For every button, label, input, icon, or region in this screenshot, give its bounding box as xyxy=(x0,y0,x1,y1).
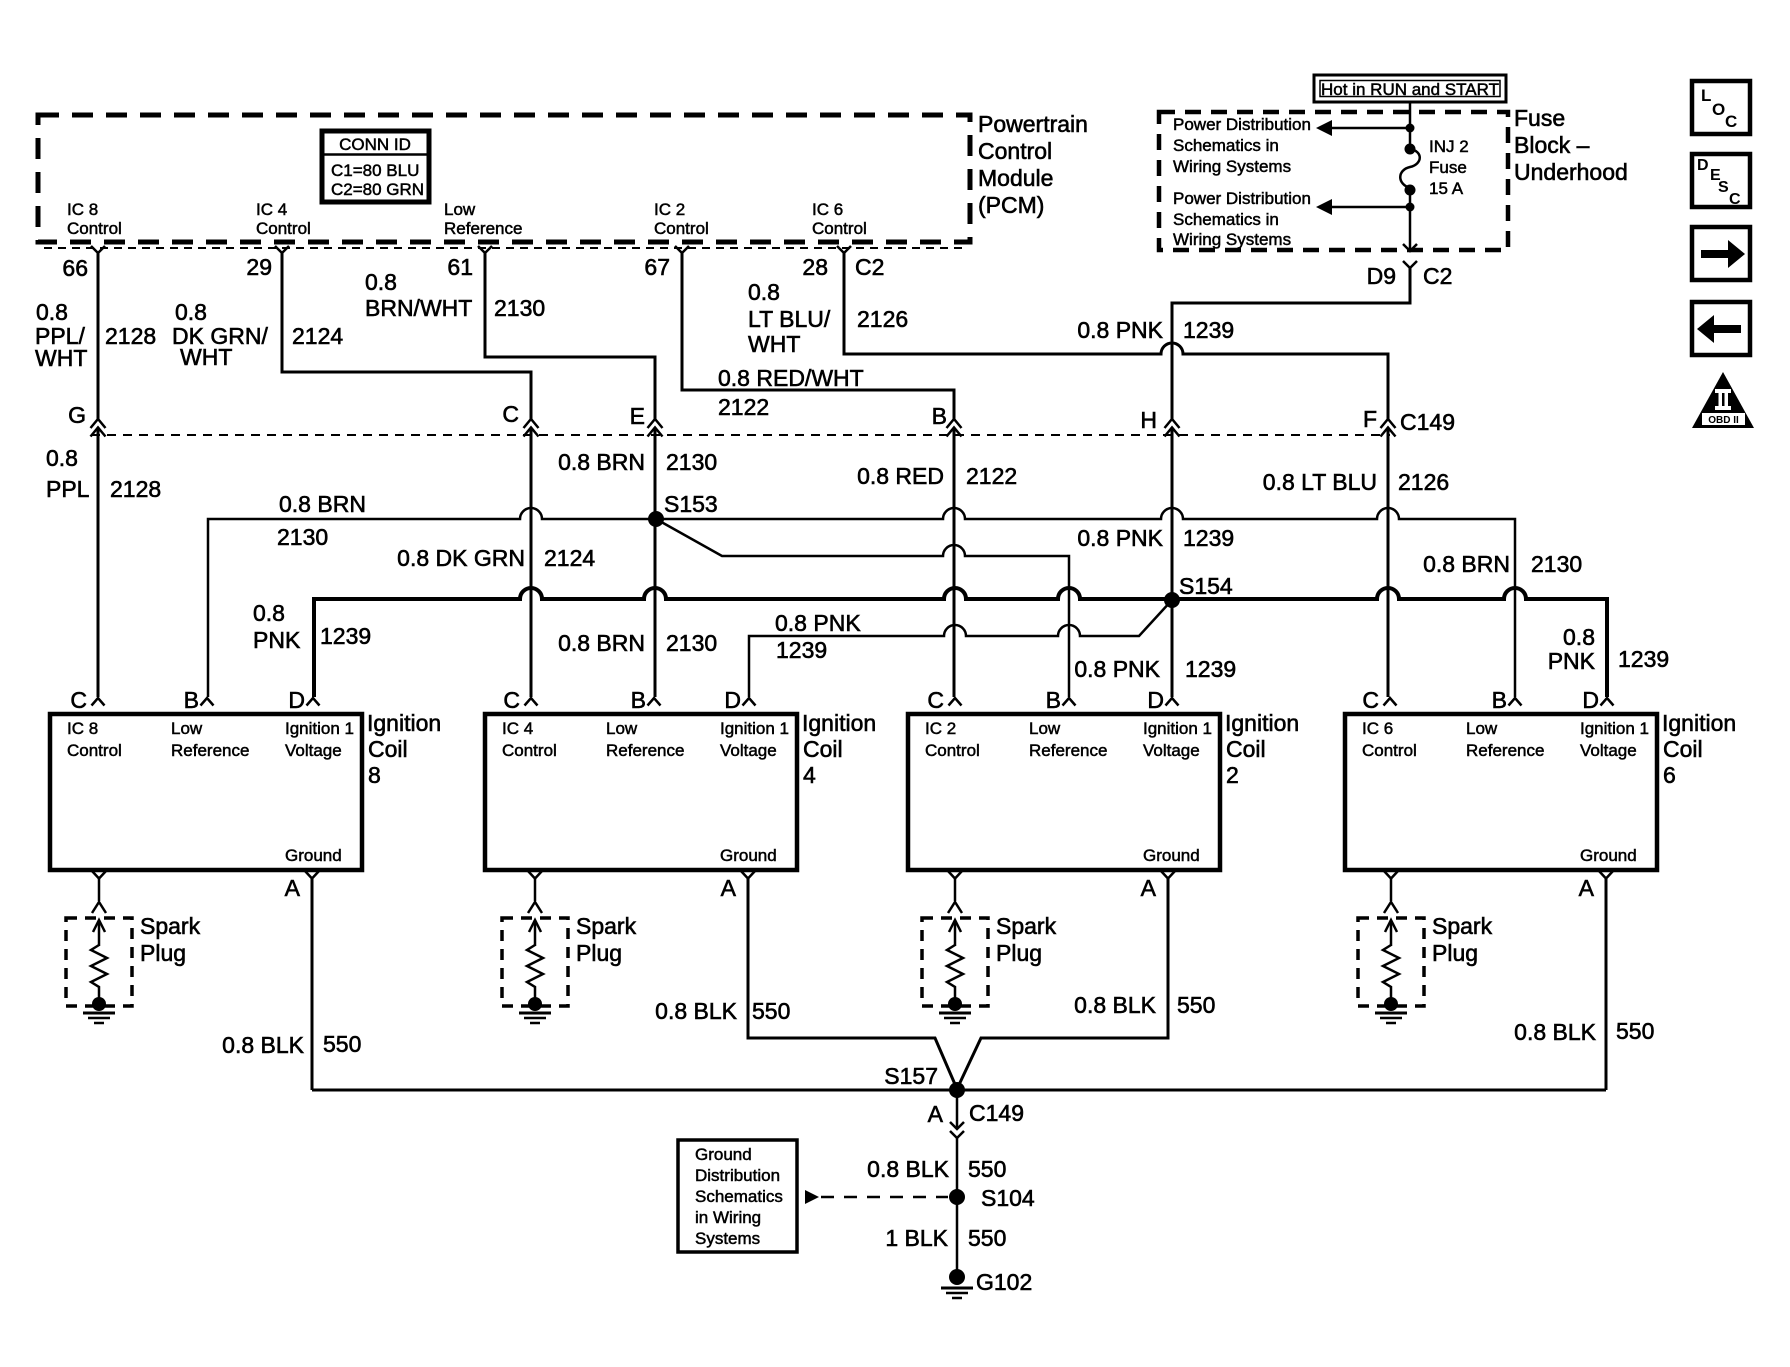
svg-text:Plug: Plug xyxy=(576,940,622,966)
svg-text:1239: 1239 xyxy=(320,623,371,649)
forward arrow icon xyxy=(1692,227,1750,280)
svg-text:Ground: Ground xyxy=(285,846,342,865)
svg-text:0.8 DK GRN: 0.8 DK GRN xyxy=(397,545,525,571)
coil 2 spark output pin xyxy=(948,871,962,913)
svg-text:0.8: 0.8 xyxy=(365,269,397,295)
svg-text:Module: Module xyxy=(978,165,1053,191)
PCM pin 61 xyxy=(447,246,492,280)
coil 6 spark output pin xyxy=(1384,871,1398,913)
svg-text:C: C xyxy=(502,401,519,427)
ignition coil 8 box xyxy=(50,714,362,870)
svg-text:550: 550 xyxy=(323,1031,361,1057)
svg-text:Control: Control xyxy=(978,138,1052,164)
svg-text:2130: 2130 xyxy=(494,295,545,321)
Ground Distribution reference box xyxy=(678,1140,797,1252)
ignition coil 2 label xyxy=(1225,710,1299,788)
PCM pin label IC 6 Control xyxy=(812,200,867,238)
fuse feed wire from Hot box xyxy=(1409,102,1412,149)
svg-text:Voltage: Voltage xyxy=(285,741,342,760)
ignition coil 2 box xyxy=(908,714,1220,870)
svg-text:A: A xyxy=(1579,875,1595,901)
svg-text:550: 550 xyxy=(1616,1018,1654,1044)
PCM pin 66 xyxy=(62,246,105,281)
PCM pin label IC 2 Control xyxy=(654,200,709,238)
svg-text:Schematics in: Schematics in xyxy=(1173,136,1279,155)
svg-text:C: C xyxy=(503,687,520,713)
svg-text:Coil: Coil xyxy=(803,736,843,762)
branch arrow to Power Distribution 1 xyxy=(1316,120,1415,136)
svg-text:Wiring Systems: Wiring Systems xyxy=(1173,230,1291,249)
label 1 BLK 550 xyxy=(885,1225,1006,1251)
PCM pin label IC 4 Control xyxy=(256,200,311,238)
svg-text:0.8 BLK: 0.8 BLK xyxy=(1514,1019,1596,1045)
svg-text:Low: Low xyxy=(444,200,476,219)
svg-text:B: B xyxy=(932,403,947,429)
svg-text:2130: 2130 xyxy=(666,449,717,475)
label 0.8 PPL/WHT 2128 xyxy=(35,299,156,371)
svg-text:Control: Control xyxy=(502,741,557,760)
Hot in RUN and START box xyxy=(1314,75,1506,102)
connector D9 / C2 chevrons xyxy=(1367,244,1453,289)
svg-text:in Wiring: in Wiring xyxy=(695,1208,761,1227)
label 0.8 RED 2122 xyxy=(857,463,1017,489)
svg-text:Ignition: Ignition xyxy=(1662,710,1736,736)
svg-text:Plug: Plug xyxy=(1432,940,1478,966)
svg-text:2126: 2126 xyxy=(1398,469,1449,495)
svg-text:1 BLK: 1 BLK xyxy=(885,1225,948,1251)
svg-text:C149: C149 xyxy=(969,1100,1024,1126)
coil 4 pin C xyxy=(503,687,537,713)
coil 8 pin D xyxy=(288,687,319,713)
svg-text:29: 29 xyxy=(246,254,272,280)
svg-text:L: L xyxy=(1701,86,1711,105)
svg-text:C: C xyxy=(1725,112,1737,131)
svg-text:550: 550 xyxy=(752,998,790,1024)
wire BLK 550 coil2 A into S157 xyxy=(957,878,1168,1089)
INJ 2 Fuse 15 A label xyxy=(1429,137,1469,198)
coil 2 pin B xyxy=(1046,687,1076,713)
wire BLK 550 S157 down through C149 xyxy=(956,1090,959,1197)
svg-text:Spark: Spark xyxy=(1432,913,1493,939)
splice S153 xyxy=(648,491,718,527)
svg-text:Coil: Coil xyxy=(1663,736,1703,762)
svg-text:IC 2: IC 2 xyxy=(925,719,956,738)
svg-text:Systems: Systems xyxy=(695,1229,760,1248)
svg-text:0.8 BRN: 0.8 BRN xyxy=(1423,551,1510,577)
PCM title xyxy=(978,111,1088,218)
svg-text:S154: S154 xyxy=(1179,573,1233,599)
svg-text:0.8 BRN: 0.8 BRN xyxy=(558,449,645,475)
svg-text:Ignition 1: Ignition 1 xyxy=(720,719,789,738)
svg-text:Ground: Ground xyxy=(695,1145,752,1164)
svg-text:Power Distribution: Power Distribution xyxy=(1173,189,1311,208)
svg-text:D: D xyxy=(1582,687,1599,713)
svg-text:C2=80 GRN: C2=80 GRN xyxy=(331,180,424,199)
svg-text:Control: Control xyxy=(925,741,980,760)
svg-text:Voltage: Voltage xyxy=(1580,741,1637,760)
spark plug 4 xyxy=(502,918,568,1023)
svg-text:WHT: WHT xyxy=(180,344,232,370)
svg-text:D: D xyxy=(1147,687,1164,713)
connector C149 dashed line xyxy=(91,434,1390,436)
back arrow icon xyxy=(1692,302,1750,355)
svg-text:Ignition: Ignition xyxy=(802,710,876,736)
spark plug 2 label xyxy=(996,913,1057,966)
svg-text:IC 6: IC 6 xyxy=(812,200,843,219)
C149 pin H xyxy=(1140,407,1179,437)
Fuse Block dashed box xyxy=(1159,112,1508,250)
coil 8 ground pin A xyxy=(285,871,319,901)
svg-text:0.8 BRN: 0.8 BRN xyxy=(558,630,645,656)
svg-text:28: 28 xyxy=(802,254,828,280)
svg-text:4: 4 xyxy=(803,762,816,788)
connector dashed line under PCM xyxy=(44,247,966,249)
svg-text:S157: S157 xyxy=(884,1063,938,1089)
svg-text:Voltage: Voltage xyxy=(1143,741,1200,760)
splice S104 xyxy=(949,1185,1035,1211)
svg-text:0.8: 0.8 xyxy=(175,299,207,325)
svg-text:IC 4: IC 4 xyxy=(502,719,533,738)
svg-text:2122: 2122 xyxy=(718,394,769,420)
svg-text:Low: Low xyxy=(606,719,638,738)
svg-text:B: B xyxy=(631,687,646,713)
coil 2 pin D xyxy=(1147,687,1178,713)
svg-text:IC 2: IC 2 xyxy=(654,200,685,219)
C149 pin G xyxy=(68,402,105,437)
svg-text:2124: 2124 xyxy=(544,545,595,571)
svg-text:Low: Low xyxy=(171,719,203,738)
dashed reference wire to S104 xyxy=(805,1190,948,1204)
svg-text:2130: 2130 xyxy=(1531,551,1582,577)
fuse F16 INJ 2 element xyxy=(1400,144,1420,196)
svg-text:Ignition 1: Ignition 1 xyxy=(285,719,354,738)
svg-text:Reference: Reference xyxy=(606,741,684,760)
svg-text:A: A xyxy=(928,1101,944,1127)
svg-text:Ground: Ground xyxy=(720,846,777,865)
svg-text:Wiring Systems: Wiring Systems xyxy=(1173,157,1291,176)
C149 pin C xyxy=(502,401,538,437)
label 0.8 LT BLU/WHT 2126 xyxy=(748,279,908,357)
svg-text:Ignition 1: Ignition 1 xyxy=(1580,719,1649,738)
svg-text:2128: 2128 xyxy=(110,476,161,502)
DESC icon xyxy=(1692,154,1750,208)
label 0.8 BLK 550 (below C149) xyxy=(867,1156,1006,1182)
svg-text:Coil: Coil xyxy=(1226,736,1266,762)
coil 2 ground pin A xyxy=(1141,871,1175,901)
svg-text:0.8: 0.8 xyxy=(748,279,780,305)
svg-text:WHT: WHT xyxy=(35,345,87,371)
wire LT BLU/WHT 2126 pin 28 to F, hops H xyxy=(844,253,1388,697)
svg-text:2126: 2126 xyxy=(857,306,908,332)
svg-text:IC 8: IC 8 xyxy=(67,200,98,219)
svg-text:C1=80 BLU: C1=80 BLU xyxy=(331,161,419,180)
PCM pin 29 xyxy=(246,246,289,280)
coil 6 ground pin A xyxy=(1579,871,1613,901)
svg-text:66: 66 xyxy=(62,255,88,281)
svg-text:0.8 PNK: 0.8 PNK xyxy=(1077,525,1163,551)
PCM dashed box xyxy=(38,115,970,242)
svg-text:1239: 1239 xyxy=(1185,656,1236,682)
spark plug 4 label xyxy=(576,913,637,966)
svg-text:S104: S104 xyxy=(981,1185,1035,1211)
svg-text:0.8 BLK: 0.8 BLK xyxy=(222,1032,304,1058)
svg-text:O: O xyxy=(1712,100,1725,119)
svg-text:550: 550 xyxy=(1177,992,1215,1018)
svg-text:E: E xyxy=(630,403,645,429)
svg-text:INJ 2: INJ 2 xyxy=(1429,137,1469,156)
svg-text:PPL: PPL xyxy=(46,476,90,502)
svg-text:0.8 BRN: 0.8 BRN xyxy=(279,491,366,517)
svg-text:Schematics: Schematics xyxy=(695,1187,783,1206)
label 0.8 PNK 1239 (coil8 D) xyxy=(253,600,371,653)
svg-text:(PCM): (PCM) xyxy=(978,192,1044,218)
label 0.8 RED/WHT 2122 xyxy=(718,365,864,420)
svg-text:0.8: 0.8 xyxy=(253,600,285,626)
svg-text:Reference: Reference xyxy=(1466,741,1544,760)
svg-text:WHT: WHT xyxy=(748,331,800,357)
Fuse Block - Underhood label xyxy=(1514,105,1628,185)
svg-text:1239: 1239 xyxy=(776,637,827,663)
svg-text:8: 8 xyxy=(368,762,381,788)
svg-text:Ignition: Ignition xyxy=(1225,710,1299,736)
svg-text:Spark: Spark xyxy=(576,913,637,939)
svg-text:C: C xyxy=(1729,191,1741,208)
coil 2 pin C xyxy=(927,687,961,713)
ground bus wire into S157 xyxy=(312,1089,1606,1092)
svg-text:Ground: Ground xyxy=(1143,846,1200,865)
wire BRN/WHT 2130 pin 61 to E xyxy=(485,253,655,519)
OBD II icon xyxy=(1692,372,1754,428)
svg-text:CONN ID: CONN ID xyxy=(339,135,411,154)
wire PPL/WHT 2128 pin 66 to G xyxy=(97,253,100,697)
svg-text:Ignition: Ignition xyxy=(367,710,441,736)
wire BLK 550 coil8 A to S157 bus xyxy=(311,878,314,1090)
svg-text:2122: 2122 xyxy=(966,463,1017,489)
svg-text:Powertrain: Powertrain xyxy=(978,111,1088,137)
svg-text:0.8 PNK: 0.8 PNK xyxy=(1074,656,1160,682)
svg-text:67: 67 xyxy=(644,254,670,280)
splice S154 xyxy=(1164,573,1233,608)
spark plug 6 label xyxy=(1432,913,1493,966)
label 0.8 BLK 550 (coil2) xyxy=(1074,992,1215,1018)
svg-text:C2: C2 xyxy=(1423,263,1452,289)
svg-text:Coil: Coil xyxy=(368,736,408,762)
coil 8 spark output pin xyxy=(92,871,106,913)
coil 4 pin D xyxy=(724,687,755,713)
svg-text:6: 6 xyxy=(1663,762,1676,788)
spark plug 2 xyxy=(922,918,988,1023)
svg-text:C: C xyxy=(70,687,87,713)
svg-text:B: B xyxy=(1046,687,1061,713)
svg-text:Reference: Reference xyxy=(444,219,522,238)
wire RED/WHT 2122 pin 67 to B xyxy=(682,253,954,697)
coil 8 pin C xyxy=(70,687,104,713)
svg-text:C2: C2 xyxy=(855,254,884,280)
LOC icon xyxy=(1692,81,1750,134)
svg-text:IC 8: IC 8 xyxy=(67,719,98,738)
svg-text:OBD II: OBD II xyxy=(1708,415,1739,426)
svg-text:2130: 2130 xyxy=(666,630,717,656)
svg-text:Fuse: Fuse xyxy=(1514,105,1565,131)
svg-text:S153: S153 xyxy=(664,491,718,517)
Power Distribution reference text 1 xyxy=(1173,115,1311,176)
svg-text:2128: 2128 xyxy=(105,323,156,349)
CONN ID table xyxy=(322,131,429,202)
label 0.8 DK GRN/WHT 2124 xyxy=(172,299,343,370)
svg-text:S: S xyxy=(1718,179,1729,196)
branch arrow to Power Distribution 2 xyxy=(1316,199,1415,215)
svg-text:Voltage: Voltage xyxy=(720,741,777,760)
wire BRN 2130 low reference bus: coil8 B to coil6 B, hops C,B,H,F xyxy=(208,508,1515,697)
wire BRN 2130 branch S153 to coil 2 pin B, hops B xyxy=(656,519,1069,697)
coil 6 pin B xyxy=(1492,687,1522,713)
C149 pin F xyxy=(1363,406,1455,437)
PCM pin label IC 8 Control xyxy=(67,200,122,238)
svg-text:61: 61 xyxy=(447,254,473,280)
wire 1 BLK 550 S104 to G102 xyxy=(956,1197,959,1272)
svg-text:0.8: 0.8 xyxy=(36,299,68,325)
wire PNK 1239 ignition bus: coil8 D to coil6 D, hops C,E,B,coil2B,F,coil6B xyxy=(314,588,1607,697)
wire BLK 550 coil4 A into S157 xyxy=(748,878,957,1089)
svg-text:2: 2 xyxy=(1226,762,1239,788)
svg-text:0.8: 0.8 xyxy=(46,445,78,471)
svg-text:Plug: Plug xyxy=(996,940,1042,966)
svg-text:0.8 RED/WHT: 0.8 RED/WHT xyxy=(718,365,864,391)
svg-text:A: A xyxy=(285,875,301,901)
label 0.8 PNK 1239 (H below S154) xyxy=(1074,656,1236,682)
label 0.8 BRN 2130 (E above S153) xyxy=(558,449,717,475)
label 0.8 PNK 1239 (H above S154) xyxy=(1077,525,1234,551)
coil 8 pin B xyxy=(184,687,214,713)
svg-text:Fuse: Fuse xyxy=(1429,158,1467,177)
wire below fuse ending at box edge xyxy=(1409,190,1412,251)
svg-text:IC 4: IC 4 xyxy=(256,200,287,219)
PCM pin 67 xyxy=(644,246,689,280)
svg-text:Ground: Ground xyxy=(1580,846,1637,865)
svg-text:1239: 1239 xyxy=(1183,525,1234,551)
spark plug 8 label xyxy=(140,913,201,966)
svg-text:F: F xyxy=(1363,406,1377,432)
svg-text:Schematics in: Schematics in xyxy=(1173,210,1279,229)
label 0.8 BRN/WHT 2130 xyxy=(365,269,545,321)
svg-text:Distribution: Distribution xyxy=(695,1166,780,1185)
svg-text:G: G xyxy=(68,402,86,428)
svg-text:0.8 BLK: 0.8 BLK xyxy=(867,1156,949,1182)
svg-text:A: A xyxy=(721,875,737,901)
PCM pin label Low Reference xyxy=(444,200,522,238)
svg-text:2130: 2130 xyxy=(277,524,328,550)
svg-text:H: H xyxy=(1140,407,1157,433)
label 0.8 BLK 550 (coil8) xyxy=(222,1031,361,1058)
svg-text:15 A: 15 A xyxy=(1429,179,1464,198)
svg-text:Control: Control xyxy=(1362,741,1417,760)
coil 4 pin B xyxy=(631,687,661,713)
label 0.8 PPL 2128 (below C149) xyxy=(46,445,161,502)
svg-text:0.8 LT BLU: 0.8 LT BLU xyxy=(1263,469,1377,495)
svg-text:Block –: Block – xyxy=(1514,132,1590,158)
wire PNK 1239 branch S154 to coil 4 pin D, hops coil2 B and C xyxy=(749,600,1172,697)
svg-text:0.8 BLK: 0.8 BLK xyxy=(1074,992,1156,1018)
ignition coil 6 label xyxy=(1662,710,1736,788)
ignition coil 4 box xyxy=(485,714,797,870)
label 0.8 DK GRN 2124 xyxy=(397,545,595,571)
svg-text:D: D xyxy=(1697,157,1709,174)
svg-text:Control: Control xyxy=(256,219,311,238)
splice S157 xyxy=(884,1063,965,1098)
svg-text:G102: G102 xyxy=(976,1269,1032,1295)
svg-text:A: A xyxy=(1141,875,1157,901)
svg-text:Control: Control xyxy=(67,219,122,238)
svg-text:Hot in RUN and START: Hot in RUN and START xyxy=(1321,80,1499,99)
svg-text:2124: 2124 xyxy=(292,323,343,349)
label 0.8 BLK 550 (coil4) xyxy=(655,998,790,1024)
label 0.8 PNK 1239 (coil4 D) xyxy=(775,610,861,663)
label 0.8 BRN 2130 (E below S153) xyxy=(558,630,717,656)
connector C149 pin A chevrons xyxy=(928,1100,1024,1138)
ignition coil 4 label xyxy=(802,710,876,788)
coil 4 spark output pin xyxy=(528,871,542,913)
coil 4 ground pin A xyxy=(721,871,755,901)
svg-text:Plug: Plug xyxy=(140,940,186,966)
svg-text:LT BLU/: LT BLU/ xyxy=(748,306,831,332)
label 0.8 BLK 550 (coil6) xyxy=(1514,1018,1654,1045)
svg-text:Spark: Spark xyxy=(140,913,201,939)
label 0.8 BRN 2130 (bus right) xyxy=(1423,551,1582,577)
svg-text:C: C xyxy=(1362,687,1379,713)
svg-text:Low: Low xyxy=(1029,719,1061,738)
svg-text:D: D xyxy=(724,687,741,713)
label 0.8 PNK 1239 (fuse feed) xyxy=(1077,317,1234,343)
wire DK GRN/WHT 2124 pin 29 to C xyxy=(282,253,531,697)
coil 6 pin D xyxy=(1582,687,1613,713)
svg-text:550: 550 xyxy=(968,1225,1006,1251)
svg-text:Reference: Reference xyxy=(1029,741,1107,760)
svg-text:0.8: 0.8 xyxy=(1563,624,1595,650)
spark plug 8 xyxy=(66,918,132,1023)
svg-text:IC 6: IC 6 xyxy=(1362,719,1393,738)
svg-text:Control: Control xyxy=(654,219,709,238)
svg-text:C: C xyxy=(927,687,944,713)
svg-text:0.8 PNK: 0.8 PNK xyxy=(775,610,861,636)
svg-text:Reference: Reference xyxy=(171,741,249,760)
svg-text:550: 550 xyxy=(968,1156,1006,1182)
PCM pin 28, connector C2 xyxy=(802,246,884,280)
svg-text:Ignition 1: Ignition 1 xyxy=(1143,719,1212,738)
wire BLK 550 coil6 A to S157 bus xyxy=(1605,878,1608,1090)
svg-text:D9: D9 xyxy=(1367,263,1396,289)
svg-text:0.8 PNK: 0.8 PNK xyxy=(1077,317,1163,343)
svg-text:1239: 1239 xyxy=(1183,317,1234,343)
wire E continues S153 to coil 4 pin B xyxy=(654,519,657,697)
svg-text:B: B xyxy=(184,687,199,713)
svg-text:Control: Control xyxy=(812,219,867,238)
svg-text:Underhood: Underhood xyxy=(1514,159,1628,185)
svg-text:PNK: PNK xyxy=(1548,648,1596,674)
C149 pin E xyxy=(630,403,663,437)
wire PNK 1239 from fuse D9 down H to coil 2 pin D xyxy=(1172,268,1410,697)
svg-text:Spark: Spark xyxy=(996,913,1057,939)
svg-text:1239: 1239 xyxy=(1618,646,1669,672)
C149 pin B xyxy=(932,403,962,437)
svg-text:0.8 BLK: 0.8 BLK xyxy=(655,998,737,1024)
label 0.8 LT BLU 2126 xyxy=(1263,469,1449,495)
svg-text:C149: C149 xyxy=(1400,409,1455,435)
svg-text:PNK: PNK xyxy=(253,627,301,653)
label 0.8 PNK 1239 (coil6 D) xyxy=(1548,624,1669,674)
ignition coil 8 label xyxy=(367,710,441,788)
svg-text:Control: Control xyxy=(67,741,122,760)
svg-text:BRN/WHT: BRN/WHT xyxy=(365,295,472,321)
